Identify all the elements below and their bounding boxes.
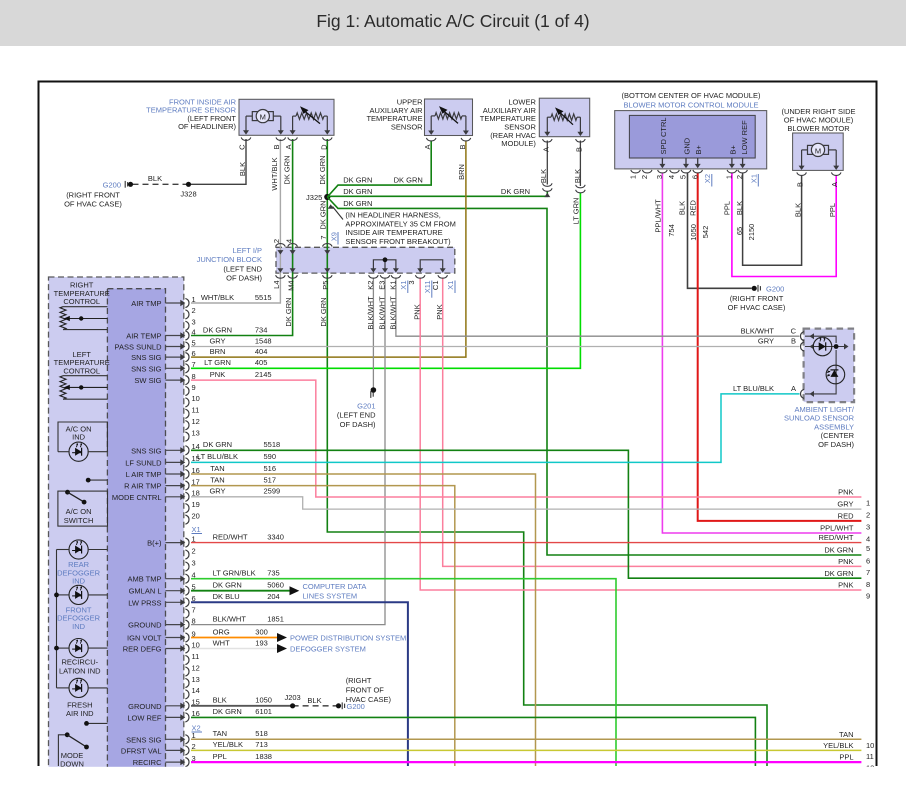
svg-text:DK GRN: DK GRN (824, 546, 853, 555)
svg-text:RED/WHT: RED/WHT (213, 532, 248, 541)
svg-text:4: 4 (284, 239, 293, 243)
wire DK GRN sensor pin D through junction P5, long run to bottom (327, 139, 767, 766)
svg-text:A: A (284, 145, 293, 150)
wire PNK 2145 pin 8 to right stub 1 (191, 380, 861, 497)
svg-text:405: 405 (255, 358, 268, 367)
junction block through-wire bottom arrows (277, 268, 283, 272)
svg-text:PPL: PPL (839, 753, 853, 762)
svg-text:BLK: BLK (573, 169, 582, 183)
connector X1 pin 8 label arrow (166, 624, 183, 626)
svg-text:WHT: WHT (213, 638, 230, 647)
wire DK GRN 5518 pin 14 to right stub 8 (191, 450, 861, 578)
blower motor control module pin cups X1 (727, 170, 737, 173)
svg-text:DK GRN: DK GRN (203, 325, 232, 334)
svg-text:IND: IND (72, 577, 86, 586)
connector X1 pin 8 clip (185, 620, 189, 629)
svg-text:20: 20 (192, 511, 200, 520)
wire LT BLU/BLK 590 pin 15 to ambient sensor pin A (191, 394, 800, 463)
svg-text:POWER DISTRIBUTION SYSTEM: POWER DISTRIBUTION SYSTEM (290, 634, 406, 643)
A/C on indicator box (58, 422, 107, 452)
svg-text:A: A (423, 145, 432, 150)
connector A pin 8 clip (185, 376, 189, 385)
svg-text:AMB TMP: AMB TMP (127, 575, 161, 584)
svg-text:2: 2 (192, 546, 196, 555)
computer data lines system arrow (290, 586, 300, 595)
svg-text:2150: 2150 (747, 224, 756, 241)
svg-text:5: 5 (192, 583, 196, 592)
svg-text:B: B (272, 145, 281, 150)
svg-text:8: 8 (192, 372, 196, 381)
svg-text:404: 404 (255, 347, 268, 356)
svg-text:PPL/WHT: PPL/WHT (820, 524, 854, 533)
connector A pin 18 clip (185, 492, 189, 501)
svg-text:X1: X1 (446, 281, 455, 290)
svg-text:SWITCH: SWITCH (64, 516, 94, 525)
connector A pin 6 label arrow (166, 356, 183, 358)
svg-text:OF HVAC CASE): OF HVAC CASE) (64, 200, 122, 209)
svg-text:DK GRN: DK GRN (343, 199, 372, 208)
upper auxiliary air temperature sensor box (425, 99, 473, 136)
svg-text:754: 754 (667, 224, 676, 237)
svg-text:LT GRN: LT GRN (204, 358, 231, 367)
svg-text:19: 19 (192, 500, 200, 509)
connector A pin 9 clip (185, 386, 189, 395)
svg-text:GROUND: GROUND (128, 621, 162, 630)
svg-text:MODE CNTRL: MODE CNTRL (112, 493, 162, 502)
svg-text:PNK: PNK (210, 370, 225, 379)
svg-text:J328: J328 (180, 190, 196, 199)
upper sensor pin cups (426, 138, 436, 141)
svg-text:BLOWER MOTOR CONTROL MODULE: BLOWER MOTOR CONTROL MODULE (623, 100, 758, 109)
connector A pin 8 label arrow (166, 379, 183, 381)
svg-text:X11: X11 (423, 281, 432, 294)
node on rail at recirculation (54, 646, 59, 651)
svg-text:DK GRN: DK GRN (318, 200, 327, 229)
LED fresh air indicator (69, 678, 88, 697)
wire TAN 518 pin X2-1 to right stub 10 (191, 738, 861, 740)
svg-text:7: 7 (192, 360, 196, 369)
svg-text:JUNCTION BLOCK: JUNCTION BLOCK (197, 255, 262, 264)
wire PPL/WHT 754 module X2-3 to right stub 4 (662, 173, 861, 533)
wire TAN 517 pin 17 down to bottom (191, 486, 455, 766)
wire BRN 404 upper sensor pin B to pin 6 (191, 141, 466, 357)
svg-text:1851: 1851 (267, 614, 284, 623)
wire LT GRN 405 lower sensor pin B to pin 7 (191, 193, 580, 369)
svg-text:BLK: BLK (735, 201, 744, 215)
svg-text:J203: J203 (284, 693, 300, 702)
svg-text:DK GRN: DK GRN (343, 176, 372, 185)
svg-text:PNK: PNK (838, 488, 853, 497)
upper sensor pin drops A and B (430, 116, 432, 131)
svg-text:A: A (830, 182, 839, 187)
svg-text:3: 3 (866, 523, 870, 532)
wire DK GRN 5060 pin X1-5 to computer data lines arrow (191, 590, 290, 592)
potentiometer left temperature control (60, 376, 66, 400)
svg-text:A: A (791, 384, 796, 393)
svg-text:WHT/BLK: WHT/BLK (270, 157, 279, 190)
svg-text:B(+): B(+) (147, 539, 162, 548)
svg-text:(CENTER: (CENTER (821, 431, 855, 440)
svg-text:BLOWER MOTOR: BLOWER MOTOR (787, 124, 850, 133)
svg-text:DK GRN: DK GRN (824, 569, 853, 578)
svg-text:2: 2 (192, 742, 196, 751)
blower motor pin cups (797, 172, 807, 175)
connector A pin 14 label arrow (166, 449, 183, 451)
connector A pin 14 clip (185, 446, 189, 455)
wire PNK junction pin 3 to right stub 9 (420, 278, 861, 591)
svg-text:14: 14 (192, 442, 200, 451)
svg-text:R AIR TMP: R AIR TMP (124, 482, 161, 491)
svg-text:9: 9 (192, 383, 196, 392)
svg-text:M: M (260, 113, 266, 122)
wire BLK lower sensor pin B upper segment (579, 141, 581, 187)
node J203 (290, 703, 295, 708)
svg-text:516: 516 (264, 464, 277, 473)
svg-text:6: 6 (192, 594, 196, 603)
bottom clip mask (0, 767, 906, 799)
svg-text:APPROXIMATELY 35 CM FROM: APPROXIMATELY 35 CM FROM (345, 219, 455, 228)
svg-text:B+: B+ (728, 144, 737, 154)
LED recirculation indicator (69, 639, 88, 658)
svg-text:9: 9 (866, 592, 870, 601)
lower sensor pin drops A and B (546, 117, 548, 132)
svg-text:J325: J325 (306, 193, 322, 202)
connector X1 pin 5 label arrow (166, 590, 183, 592)
svg-text:INSIDE AIR TEMPERATURE: INSIDE AIR TEMPERATURE (345, 228, 442, 237)
svg-text:LOW REF: LOW REF (127, 713, 162, 722)
svg-text:MODULE): MODULE) (501, 139, 536, 148)
svg-text:17: 17 (192, 477, 200, 486)
wire BLK/WHT 1851 junction E3 down to pin X1-8 (191, 278, 385, 625)
svg-text:4: 4 (192, 571, 196, 580)
motor M1 in front inside air temperature sensor (246, 115, 252, 117)
svg-text:MODE: MODE (61, 751, 84, 760)
svg-text:HVAC CASE): HVAC CASE) (346, 695, 392, 704)
connector X2 pin 3 label arrow (166, 761, 183, 763)
mode down switch feed line (87, 722, 108, 724)
svg-text:3: 3 (655, 175, 664, 179)
svg-text:CONTROL: CONTROL (63, 366, 100, 375)
arrow into branch2 end (544, 193, 550, 197)
svg-text:6: 6 (690, 175, 699, 179)
svg-text:1050: 1050 (255, 696, 272, 705)
svg-text:BLK: BLK (307, 696, 321, 705)
svg-text:IGN VOLT: IGN VOLT (127, 634, 162, 643)
connector X1 pin 10 clip (185, 644, 189, 653)
svg-text:P5: P5 (321, 281, 330, 290)
svg-text:G200: G200 (766, 285, 784, 294)
wire DK GRN branch 1 to upper aux sensor pin A (327, 141, 431, 197)
svg-text:LEFT I/P: LEFT I/P (233, 246, 262, 255)
svg-text:BLK/WHT: BLK/WHT (213, 614, 247, 623)
svg-text:5: 5 (192, 338, 196, 347)
svg-text:OF DASH): OF DASH) (818, 440, 854, 449)
svg-text:PPL/WHT: PPL/WHT (654, 199, 663, 233)
lower sensor pin cups (543, 139, 553, 142)
svg-text:3: 3 (192, 318, 196, 327)
svg-text:DK GRN: DK GRN (213, 707, 242, 716)
svg-text:LINES SYSTEM: LINES SYSTEM (303, 592, 358, 601)
wire ORG 300 pin X1-9 to power distribution arrow (191, 637, 277, 639)
connector X1 pin 15 clip (185, 701, 189, 710)
wire DK GRN branch 3 long run to right stub 6 (327, 197, 861, 555)
svg-text:(RIGHT FRONT: (RIGHT FRONT (730, 294, 784, 303)
svg-text:16: 16 (192, 709, 200, 718)
svg-text:L4: L4 (272, 281, 281, 289)
connector X1 pin 16 label arrow (166, 716, 183, 718)
connector A pin 7 clip (185, 364, 189, 373)
svg-text:BLK/WHT: BLK/WHT (389, 296, 398, 330)
svg-text:SENSOR: SENSOR (391, 123, 423, 132)
svg-text:8: 8 (866, 580, 870, 589)
wire PPL 1838 pin X2-3 to right stub 12 (191, 761, 861, 763)
svg-text:L AIR TMP: L AIR TMP (126, 470, 162, 479)
ground G201 (371, 387, 377, 393)
connector A pin 12 clip (185, 421, 189, 430)
svg-text:DK GRN: DK GRN (343, 187, 372, 196)
svg-text:DK GRN: DK GRN (283, 155, 292, 184)
motor M2 in blower motor (802, 149, 808, 151)
svg-text:AIR TEMP: AIR TEMP (126, 332, 161, 341)
svg-text:16: 16 (192, 466, 200, 475)
svg-text:LATION IND: LATION IND (59, 666, 101, 675)
blower motor pin drops B and A (801, 150, 803, 167)
blower motor control module pin cups X2 (631, 170, 641, 173)
svg-text:(LEFT END: (LEFT END (337, 411, 376, 420)
ambient sensor pin clips (801, 332, 805, 341)
wire LT GRN/BLK 735 pin X1-4 down to bottom (191, 579, 616, 766)
svg-text:OF HEADLINER): OF HEADLINER) (178, 122, 236, 131)
svg-text:OF HVAC CASE): OF HVAC CASE) (728, 303, 786, 312)
connector X1 pin 15 label arrow (166, 705, 183, 707)
svg-text:C: C (237, 144, 246, 150)
connector A pin 15 label arrow (166, 461, 183, 463)
photodiode D2 sunload sensor (826, 365, 845, 384)
svg-text:8: 8 (192, 616, 196, 625)
svg-text:FRONT OF: FRONT OF (346, 686, 385, 695)
svg-text:DK GRN: DK GRN (501, 187, 530, 196)
svg-text:X1: X1 (192, 525, 201, 534)
svg-text:DK GRN: DK GRN (203, 440, 232, 449)
connector X1 pin 3 clip (185, 562, 189, 571)
svg-text:11: 11 (192, 652, 200, 661)
wire BLK 2150 module X1-2 to blower motor pin B (743, 173, 802, 265)
svg-text:RER DEFG: RER DEFG (123, 645, 162, 654)
wire BLK 1050 module X2-5 to G200 right (688, 173, 752, 288)
svg-text:WHT/BLK: WHT/BLK (201, 293, 234, 302)
connector X1 pin 14 clip (185, 690, 189, 699)
svg-text:13: 13 (192, 428, 200, 437)
svg-text:GRY: GRY (758, 337, 774, 346)
svg-text:DK BLU: DK BLU (213, 592, 240, 601)
variable resistor R1 in front sensor (296, 113, 324, 119)
left I/P junction block box (276, 247, 455, 273)
svg-text:3340: 3340 (267, 532, 284, 541)
wire RED 542 module X2-6 to right stub 3 (698, 173, 862, 521)
svg-text:1: 1 (192, 295, 196, 304)
svg-text:SNS SIG: SNS SIG (131, 353, 162, 362)
svg-text:BLK/WHT: BLK/WHT (366, 296, 375, 330)
svg-text:TAN: TAN (210, 464, 224, 473)
svg-text:PASS SUNLD: PASS SUNLD (115, 343, 163, 352)
wire BLK/WHT junction K2 to ground G201 (372, 278, 374, 388)
variable resistor R2 in upper aux sensor (435, 113, 462, 119)
svg-text:10: 10 (866, 741, 874, 750)
connector X1 pin 16 clip (185, 713, 189, 722)
ambient light/sunload sensor assembly box (804, 329, 855, 403)
svg-text:BRN: BRN (210, 347, 226, 356)
svg-text:RECIRCU-: RECIRCU- (61, 658, 98, 667)
svg-text:SUNLOAD SENSOR: SUNLOAD SENSOR (784, 414, 855, 423)
connector X1 pin 11 clip (185, 655, 189, 664)
connector A pin 6 clip (185, 353, 189, 362)
svg-text:300: 300 (255, 627, 268, 636)
svg-text:65: 65 (735, 227, 744, 235)
lower auxiliary air temperature sensor box (539, 98, 589, 137)
svg-text:OF DASH): OF DASH) (226, 274, 262, 283)
svg-text:7: 7 (192, 605, 196, 614)
svg-text:6101: 6101 (255, 707, 272, 716)
svg-text:C1: C1 (431, 281, 440, 291)
svg-text:IND: IND (72, 433, 86, 442)
svg-text:BLK: BLK (213, 696, 227, 705)
connector X1 pin 1 label arrow (166, 542, 183, 544)
connector X1 pin 9 label arrow (166, 637, 183, 639)
connector A pin 2 clip (185, 310, 189, 319)
connector A pin 16 clip (185, 469, 189, 478)
connector X1 pin 12 clip (185, 667, 189, 676)
svg-text:G200: G200 (103, 180, 121, 189)
connector A pin 20 clip (185, 515, 189, 524)
connector A pin 19 clip (185, 504, 189, 513)
svg-text:(LEFT END: (LEFT END (223, 264, 262, 273)
connector X1 pin 1 clip (185, 538, 189, 547)
svg-text:SENS SIG: SENS SIG (126, 735, 162, 744)
indicator LED rail (56, 550, 58, 688)
svg-text:4: 4 (192, 327, 196, 336)
photodiode D1 ambient light sensor (813, 337, 832, 356)
svg-text:TAN: TAN (210, 475, 224, 484)
svg-text:PPL: PPL (213, 752, 227, 761)
svg-text:GRY: GRY (837, 500, 853, 509)
connector X2 pin 3 clip (185, 758, 189, 767)
junction block bottom pin cups (276, 275, 286, 278)
A/C on switch feed line (88, 479, 107, 481)
potentiometer right temperature control (60, 307, 66, 330)
connector A pin 11 clip (185, 409, 189, 418)
svg-text:193: 193 (255, 638, 268, 647)
svg-text:18: 18 (192, 489, 200, 498)
svg-text:RECIRC: RECIRC (133, 758, 162, 767)
inline connector on lower sensor pin A wire (543, 183, 553, 186)
svg-text:6: 6 (866, 557, 870, 566)
wire PNK junction pin C1 to right stub 7 (443, 278, 862, 567)
svg-text:2: 2 (735, 175, 744, 179)
svg-text:1548: 1548 (255, 336, 272, 345)
junction block top entry cups (276, 244, 286, 247)
svg-text:SPD CTRL: SPD CTRL (659, 117, 668, 154)
connector A pin 17 label arrow (166, 485, 183, 487)
svg-text:734: 734 (255, 325, 268, 334)
svg-text:SNS SIG: SNS SIG (131, 364, 162, 373)
svg-text:1838: 1838 (255, 752, 272, 761)
svg-text:1: 1 (725, 175, 734, 179)
wire BLK dashed J328 to G200 (133, 183, 189, 185)
blower motor control module inner box (629, 115, 755, 158)
svg-text:DK GRN: DK GRN (318, 155, 327, 184)
svg-text:GRY: GRY (209, 487, 225, 496)
svg-text:AIR TMP: AIR TMP (131, 299, 161, 308)
svg-text:4: 4 (866, 535, 870, 544)
svg-text:LOW REF: LOW REF (740, 120, 749, 155)
svg-text:LF SUNLD: LF SUNLD (125, 458, 162, 467)
connector A pin 15 clip (185, 458, 189, 467)
connector A pin 17 clip (185, 481, 189, 490)
svg-text:1: 1 (866, 499, 870, 508)
front sensor pin drops A and D (292, 116, 294, 131)
connector A pin 16 label arrow (166, 473, 183, 475)
svg-text:BLK/WHT: BLK/WHT (377, 296, 386, 330)
diagram frame (39, 82, 877, 767)
svg-text:10: 10 (192, 394, 200, 403)
svg-text:CONTROL: CONTROL (63, 297, 100, 306)
A/C on switch (58, 491, 108, 526)
blower motor box (793, 133, 844, 170)
connector X2 pin 1 clip (185, 735, 189, 744)
temperature control head module panel (outer) (49, 277, 184, 780)
svg-text:B+: B+ (694, 144, 703, 154)
svg-text:M4: M4 (286, 281, 295, 291)
svg-text:3: 3 (192, 558, 196, 567)
svg-text:OF DASH): OF DASH) (340, 420, 376, 429)
wire PPL 65 module X1-1 to blower motor pin A (732, 173, 836, 277)
power distribution system arrow (277, 633, 287, 642)
svg-text:B: B (574, 147, 583, 152)
svg-text:BLK: BLK (539, 169, 548, 183)
front sensor pin drops C and B (245, 116, 247, 131)
svg-text:GND: GND (682, 137, 691, 154)
svg-text:A/C ON: A/C ON (66, 507, 92, 516)
svg-text:X1: X1 (399, 281, 408, 290)
svg-text:GROUND: GROUND (128, 702, 162, 711)
connector X2 pin 2 label arrow (166, 749, 183, 751)
ground G200 (right) (752, 286, 757, 291)
svg-text:AIR IND: AIR IND (66, 709, 94, 718)
LED rear defogger indicator (69, 540, 88, 559)
ambient sensor internal wiring (805, 336, 836, 343)
connector X1 pin 5 clip (185, 586, 189, 595)
svg-text:2599: 2599 (264, 487, 281, 496)
svg-text:DK GRN: DK GRN (213, 581, 242, 590)
defogger system arrow (277, 644, 287, 653)
svg-text:(RIGHT FRONT: (RIGHT FRONT (66, 191, 120, 200)
svg-text:G201: G201 (357, 402, 375, 411)
svg-text:204: 204 (267, 592, 280, 601)
svg-text:5060: 5060 (267, 581, 284, 590)
temperature control head module panel (inner connector strip) (107, 289, 165, 780)
svg-text:3: 3 (407, 281, 416, 285)
svg-text:517: 517 (264, 475, 277, 484)
svg-text:LT BLU/BLK: LT BLU/BLK (733, 384, 774, 393)
junction block jumper 3-C1 (420, 260, 443, 270)
svg-text:DEFOGGER SYSTEM: DEFOGGER SYSTEM (290, 645, 366, 654)
svg-text:DK GRN: DK GRN (319, 297, 328, 326)
svg-text:11: 11 (192, 406, 200, 415)
svg-text:GRY: GRY (209, 336, 225, 345)
svg-text:ASSEMBLY: ASSEMBLY (814, 422, 854, 431)
connector X2 pin 1 label arrow (166, 738, 183, 740)
right temp control wiper (69, 318, 108, 320)
